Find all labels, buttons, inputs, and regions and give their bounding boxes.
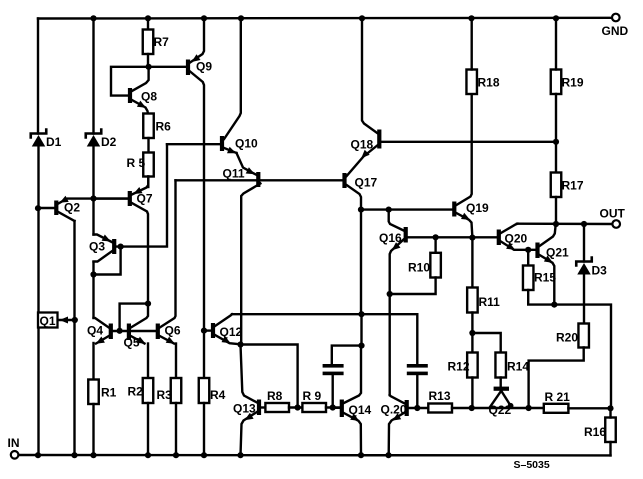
svg-text:R3: R3: [157, 388, 173, 402]
svg-text:Q14: Q14: [349, 403, 372, 417]
svg-text:IN: IN: [8, 436, 20, 450]
svg-text:Q11: Q11: [223, 167, 245, 181]
svg-text:Q13: Q13: [233, 402, 256, 416]
svg-text:R14: R14: [507, 360, 529, 374]
svg-text:Q16: Q16: [379, 231, 402, 245]
svg-text:OUT: OUT: [600, 207, 626, 221]
svg-text:R15: R15: [534, 271, 556, 285]
svg-text:Q10: Q10: [235, 137, 258, 151]
svg-text:R4: R4: [210, 388, 226, 402]
svg-text:R20: R20: [556, 331, 578, 345]
svg-text:R11: R11: [479, 295, 501, 309]
svg-text:Q9: Q9: [196, 60, 212, 74]
svg-text:R12: R12: [448, 360, 470, 374]
svg-text:R8: R8: [267, 389, 283, 403]
svg-text:Q6: Q6: [165, 324, 181, 338]
svg-text:Q19: Q19: [466, 201, 489, 215]
svg-text:Q22: Q22: [489, 403, 512, 417]
svg-text:D3: D3: [592, 264, 608, 278]
svg-text:R6: R6: [156, 120, 172, 134]
svg-text:Q21: Q21: [546, 246, 569, 260]
svg-text:R 9: R 9: [303, 389, 322, 403]
svg-text:R 5: R 5: [127, 156, 146, 170]
svg-text:R10: R10: [408, 261, 430, 275]
svg-text:Q18: Q18: [351, 138, 374, 152]
svg-text:R1: R1: [101, 386, 117, 400]
svg-text:R7: R7: [154, 35, 170, 49]
svg-text:Q8: Q8: [141, 90, 157, 104]
svg-text:Q3: Q3: [89, 240, 105, 254]
svg-text:Q17: Q17: [355, 176, 378, 190]
svg-text:Q20: Q20: [505, 232, 528, 246]
svg-text:Q.20: Q.20: [381, 403, 407, 417]
svg-text:R13: R13: [429, 389, 451, 403]
svg-text:Q2: Q2: [64, 201, 80, 215]
svg-text:R19: R19: [562, 76, 584, 90]
svg-text:R18: R18: [478, 76, 500, 90]
svg-text:R16: R16: [584, 425, 606, 439]
svg-text:Q7: Q7: [137, 192, 153, 206]
svg-text:Q12: Q12: [220, 325, 243, 339]
svg-text:R17: R17: [562, 179, 584, 193]
svg-text:R 21: R 21: [545, 390, 571, 404]
svg-text:Q4: Q4: [87, 324, 103, 338]
svg-text:S–5035: S–5035: [514, 459, 550, 471]
svg-text:D1: D1: [46, 135, 62, 149]
svg-text:Q1: Q1: [40, 314, 56, 328]
svg-text:R2: R2: [128, 385, 144, 399]
svg-text:D2: D2: [101, 135, 117, 149]
svg-text:GND: GND: [602, 24, 629, 38]
